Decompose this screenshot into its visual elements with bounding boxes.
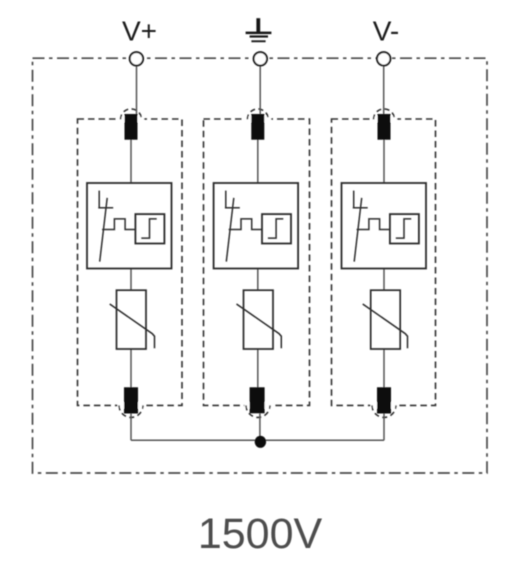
svg-text:1500V: 1500V: [198, 510, 323, 558]
svg-text:V-: V-: [373, 16, 399, 47]
svg-text:V+: V+: [122, 16, 157, 47]
